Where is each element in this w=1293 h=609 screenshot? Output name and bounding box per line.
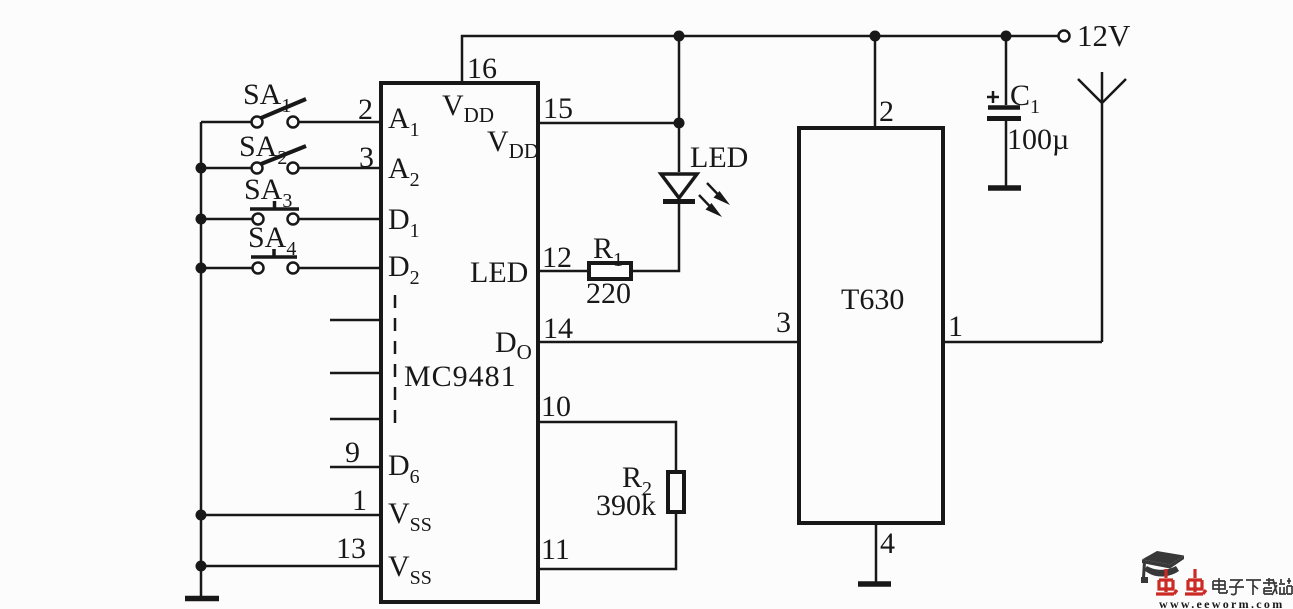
LED D1 cathode bar xyxy=(663,199,695,204)
svg-text:LED: LED xyxy=(470,256,528,289)
svg-text:MC9481: MC9481 xyxy=(404,360,517,393)
wire SA2 left xyxy=(201,167,251,170)
switch SA4 contacts xyxy=(253,263,264,274)
wire pin10 to R2 top xyxy=(538,422,676,471)
wire SA1 left xyxy=(201,121,251,124)
svg-text:2: 2 xyxy=(879,95,894,128)
node junction bus SA3 xyxy=(196,214,207,225)
svg-text:SA3: SA3 xyxy=(244,173,292,212)
wire pin14 DO to T630 pin3 xyxy=(538,341,799,344)
resistor R2 body xyxy=(668,472,684,512)
wire VDD top rail xyxy=(462,36,1058,82)
switch SA2 lever xyxy=(261,146,306,164)
wire SA3 left xyxy=(201,218,252,221)
wire T630 pin4 to ground xyxy=(875,523,878,583)
IC U1 MC9481 body xyxy=(381,83,538,602)
svg-text:VDD: VDD xyxy=(442,89,494,127)
switch SA4 button bar xyxy=(251,249,297,257)
antenna E1 xyxy=(1078,72,1126,342)
LED light arrow 2 xyxy=(699,195,722,217)
wire pin15 to LED branch xyxy=(538,122,679,125)
svg-text:T630: T630 xyxy=(841,283,904,316)
wire bus to pin1 VSS xyxy=(201,514,382,517)
ground T630 xyxy=(858,581,891,587)
LED D1 triangle xyxy=(661,174,697,198)
logo eeworm text chongchong red xyxy=(1156,569,1206,594)
terminal 12V xyxy=(1059,31,1070,42)
wire LED branch vertical xyxy=(678,36,681,172)
svg-text:3: 3 xyxy=(359,141,374,174)
capacitor C1 polarity plus xyxy=(987,91,999,103)
svg-text:3: 3 xyxy=(776,306,791,339)
ground left bus xyxy=(185,596,219,602)
wire left bus vertical xyxy=(200,122,203,598)
ground C1 xyxy=(988,185,1021,191)
switch SA3 button bar xyxy=(250,201,299,209)
wire C1 bottom to ground xyxy=(1005,121,1008,186)
resistor R1 body xyxy=(589,263,631,279)
svg-text:100µ: 100µ xyxy=(1007,123,1069,156)
wire stub pin9 D6 xyxy=(330,466,382,469)
svg-text:1: 1 xyxy=(948,310,963,343)
svg-text:9: 9 xyxy=(345,436,360,469)
svg-text:16: 16 xyxy=(467,52,497,85)
svg-text:SA4: SA4 xyxy=(248,221,296,260)
wire SA1 to pin2 A1 xyxy=(299,121,382,124)
switch SA2 contacts xyxy=(252,163,263,174)
wire SA3 to D1 xyxy=(299,218,382,221)
wire SA4 to D2 xyxy=(299,267,382,270)
svg-text:4: 4 xyxy=(880,527,895,560)
LED light arrow 1 xyxy=(707,183,730,205)
svg-text:D1: D1 xyxy=(388,203,420,242)
svg-text:DO: DO xyxy=(495,326,532,364)
svg-text:A1: A1 xyxy=(388,102,420,141)
IC U2 T630 body xyxy=(799,128,943,523)
switch SA3 contacts xyxy=(253,214,264,225)
svg-text:11: 11 xyxy=(541,533,570,566)
wire T630 pin2 to top rail xyxy=(874,36,877,128)
wire LED cathode to R1 xyxy=(633,203,679,271)
svg-text:VDD: VDD xyxy=(487,125,539,163)
wire pin11 to R2 bottom xyxy=(538,513,676,569)
svg-text:D6: D6 xyxy=(388,449,420,488)
svg-text:14: 14 xyxy=(543,312,573,345)
logo eeworm graduation cap xyxy=(1141,551,1184,583)
wire SA2 to pin3 A2 xyxy=(299,167,382,170)
node junction top rail to T630 pin2 xyxy=(870,31,881,42)
wire bus to pin13 VSS xyxy=(201,565,382,568)
switch SA1 lever xyxy=(261,99,306,118)
svg-text:12: 12 xyxy=(542,241,572,274)
wire T630 pin1 to antenna xyxy=(943,341,1102,344)
wire stub pin nc1 xyxy=(330,319,382,322)
switch SA1 contacts xyxy=(252,117,263,128)
wire pin12 to R1 xyxy=(538,270,587,273)
node junction pin15 / LED branch xyxy=(674,118,685,129)
wire C1 top xyxy=(1005,36,1008,105)
node junction bus SA2 xyxy=(196,163,207,174)
node junction bus VSS pin1 xyxy=(196,510,207,521)
logo eeworm text dianzi xiazaizhan xyxy=(1213,578,1292,595)
node junction bus VSS pin13 xyxy=(196,561,207,572)
svg-text:LED: LED xyxy=(690,141,748,174)
node junction bus SA4 xyxy=(196,263,207,274)
wire stub pin nc2 xyxy=(330,372,382,375)
dashed internal line MC9481 xyxy=(394,295,397,431)
svg-text:2: 2 xyxy=(358,93,373,126)
svg-text:390k: 390k xyxy=(596,489,656,522)
svg-text:SA1: SA1 xyxy=(243,78,291,117)
svg-text:13: 13 xyxy=(336,532,366,565)
capacitor C1 plate top xyxy=(988,105,1020,110)
svg-text:D2: D2 xyxy=(388,250,420,289)
svg-text:www.eeworm.com: www.eeworm.com xyxy=(1159,597,1285,609)
wire stub pin nc3 xyxy=(330,418,382,421)
svg-text:15: 15 xyxy=(543,92,573,125)
svg-text:220: 220 xyxy=(586,277,631,310)
wire SA4 left xyxy=(201,267,252,270)
svg-text:1: 1 xyxy=(352,484,367,517)
svg-text:A2: A2 xyxy=(388,152,420,191)
svg-text:VSS: VSS xyxy=(388,550,432,589)
node junction top rail to C1 xyxy=(1001,31,1012,42)
capacitor C1 plate bottom xyxy=(987,116,1021,121)
svg-text:C1: C1 xyxy=(1010,79,1040,118)
svg-text:10: 10 xyxy=(541,390,571,423)
svg-text:12V: 12V xyxy=(1077,18,1131,53)
node junction top rail to LED branch xyxy=(674,31,685,42)
svg-text:VSS: VSS xyxy=(388,497,432,536)
